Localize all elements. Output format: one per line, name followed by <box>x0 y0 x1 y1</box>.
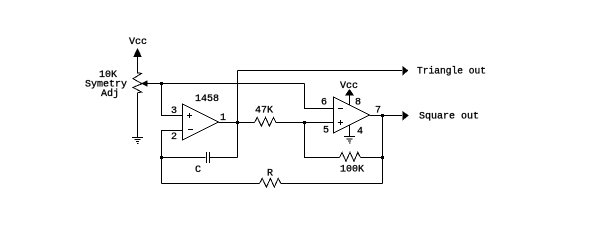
svg-text:2: 2 <box>171 132 177 143</box>
resistor 100K <box>340 152 361 161</box>
svg-text:6: 6 <box>321 98 327 109</box>
Vcc arrow (U2 pin 8) <box>346 90 353 105</box>
wire 100K to output riser <box>361 157 383 159</box>
arrowhead triangle out <box>403 67 408 75</box>
node capacitor junction <box>160 156 163 159</box>
resistor 47K <box>255 117 277 126</box>
op-amp U1 plus sign <box>187 113 192 118</box>
op-amp U2 plus sign <box>338 120 343 125</box>
svg-text:Square out: Square out <box>419 112 479 123</box>
op-amp U1 minus sign <box>188 129 193 131</box>
wire pin2 node down <box>161 158 163 184</box>
svg-text:4: 4 <box>357 127 363 138</box>
node output junction U1 <box>236 121 239 124</box>
label 10K Symetry Adj <box>85 70 127 100</box>
potentiometer wiper arrow <box>142 81 161 86</box>
op-amp U2 triangle <box>334 97 370 133</box>
wire pin 3 input <box>162 84 183 116</box>
svg-text:Adj: Adj <box>101 88 119 100</box>
wire bottom rail left <box>162 183 260 185</box>
svg-text:8: 8 <box>355 98 361 109</box>
wire wiper rail to pin 6 <box>305 84 334 109</box>
wire pin 1 output <box>219 122 255 124</box>
wire 47K to pin 5 <box>276 122 334 124</box>
potentiometer 10K body <box>133 72 142 93</box>
svg-text:5: 5 <box>323 126 329 137</box>
wire wiper rail <box>161 83 305 85</box>
svg-text:Vcc: Vcc <box>129 37 147 48</box>
op-amp U2 minus sign <box>338 108 343 110</box>
wire capacitor left <box>161 157 206 159</box>
wire pin 2 input <box>162 131 183 158</box>
Vcc arrow (left supply) <box>134 49 141 72</box>
resistor R <box>260 178 282 187</box>
node junction wiper/pin3 <box>160 82 163 85</box>
wire bottom rail right <box>281 183 383 185</box>
wire U2 output <box>370 115 403 117</box>
wire output riser <box>237 71 239 158</box>
wire pin5 to 100K rail <box>305 123 340 158</box>
node pin 5 junction <box>303 121 306 124</box>
node 100K junction <box>381 156 384 159</box>
op-amp U1 1458 triangle <box>183 104 219 140</box>
wire triangle out rail <box>238 70 403 72</box>
svg-text:C: C <box>195 165 201 176</box>
arrowhead square out <box>403 112 408 120</box>
svg-text:R: R <box>267 169 273 180</box>
wire pot bottom lead <box>137 93 139 137</box>
node U2 output junction <box>381 114 384 117</box>
svg-text:47K: 47K <box>255 106 273 117</box>
svg-text:1458: 1458 <box>195 94 219 105</box>
ground (U2 pin 4) <box>344 125 355 143</box>
svg-text:100K: 100K <box>340 165 364 176</box>
ground (left) <box>132 138 143 144</box>
wire U2 output riser <box>382 116 384 184</box>
wire capacitor right <box>210 157 238 159</box>
svg-text:3: 3 <box>171 106 177 117</box>
capacitor C plates <box>207 152 210 163</box>
svg-text:7: 7 <box>375 106 381 117</box>
svg-text:Triangle out: Triangle out <box>417 66 486 78</box>
